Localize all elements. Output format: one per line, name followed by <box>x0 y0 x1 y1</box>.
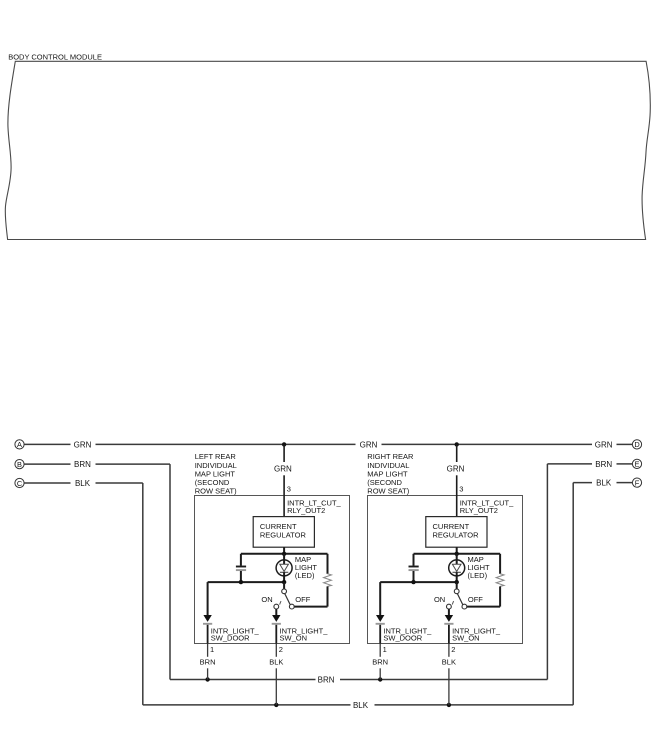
svg-text:GRN: GRN <box>595 441 613 450</box>
label INTR_LIGHT_SW_ON (right) <box>452 626 501 642</box>
connector pin E <box>632 459 641 468</box>
wire top rail (left) <box>241 553 328 555</box>
connector pin D <box>632 440 641 449</box>
label GRN (left) <box>74 441 92 450</box>
wire pin2 to box edge (left) <box>275 625 277 644</box>
wire BLK to label <box>573 482 592 484</box>
label MAP LIGHT (LED) (right) <box>468 555 491 580</box>
svg-text:OFF: OFF <box>468 595 483 604</box>
wire pin2 drop (left) <box>275 609 277 615</box>
svg-text:B: B <box>17 460 22 469</box>
junction top rail / LED (left) <box>282 552 286 556</box>
wire LED junction to switch (right) <box>456 582 458 589</box>
svg-text:A: A <box>17 440 22 449</box>
wire pin1 to BRN bus (left) <box>207 668 209 679</box>
arrow pin1 (right) <box>376 615 384 622</box>
wire pin1 lead (left) <box>207 644 209 657</box>
junction lower rail / LED (left) <box>282 580 286 584</box>
map light LED lamp (left) <box>276 554 292 582</box>
arrow bar pin2 (right) <box>444 623 453 625</box>
wire regulator to rail (left) <box>283 547 285 554</box>
junction top rail / LED (right) <box>455 552 459 556</box>
label INTR_LT_CUT_RLY_OUT2 (right) <box>460 499 514 516</box>
svg-text:OFF: OFF <box>295 595 310 604</box>
label BRN pin1 (right) <box>372 657 388 666</box>
svg-text:SW_ON: SW_ON <box>280 634 308 643</box>
switch ON/OFF (left) <box>274 589 294 609</box>
svg-text:BRN: BRN <box>74 460 91 469</box>
label MAP LIGHT (LED) (left) <box>295 555 318 580</box>
wire BRN to corner <box>96 463 171 465</box>
wire BRN from pin B <box>24 463 70 465</box>
wire BRN bus left <box>170 679 316 681</box>
svg-text:ON: ON <box>261 595 272 604</box>
wire BLK bus right <box>375 704 574 706</box>
arrow bar pin1 (left) <box>203 623 212 625</box>
svg-text:BLK: BLK <box>442 657 456 666</box>
svg-text:REGULATOR: REGULATOR <box>260 531 307 540</box>
module box: left map light <box>195 496 350 644</box>
svg-text:1: 1 <box>210 645 214 654</box>
wire pin1 lead (right) <box>379 644 381 657</box>
connector pin B <box>15 460 24 469</box>
connector pin C <box>15 478 24 487</box>
arrow pin2 (right) <box>445 615 453 622</box>
wire GRN from pin A <box>24 443 70 445</box>
svg-text:1: 1 <box>383 645 387 654</box>
connector pin A <box>15 440 24 449</box>
junction BRN bus / right pin 1 <box>378 677 382 681</box>
wire OFF contact to resistor (left) <box>294 606 327 608</box>
wire pin1 to BRN bus (right) <box>379 668 381 679</box>
svg-text:BRN: BRN <box>318 676 335 685</box>
capacitor (right) <box>409 554 419 582</box>
wire BLK to pin F <box>617 482 633 484</box>
switch ON/OFF (right) <box>447 589 467 609</box>
wire GRN across top <box>96 443 356 445</box>
svg-text:SW_DOOR: SW_DOOR <box>383 634 422 643</box>
svg-text:SW_ON: SW_ON <box>452 634 480 643</box>
wire GRN drop to right module (lower) <box>456 475 458 516</box>
svg-text:ROW SEAT): ROW SEAT) <box>195 487 237 496</box>
module box: right map light <box>368 496 523 644</box>
wire top rail (right) <box>414 553 501 555</box>
svg-text:E: E <box>635 460 640 469</box>
wire pin2 lead (right) <box>448 644 450 657</box>
wire BRN left riser <box>169 464 171 679</box>
resistor (right) <box>496 554 504 607</box>
junction BLK bus / left pin 2 <box>274 703 278 707</box>
svg-text:ROW SEAT): ROW SEAT) <box>367 487 409 496</box>
svg-text:BRN: BRN <box>200 657 216 666</box>
pin number 1 (left) <box>210 645 214 654</box>
label ON (right) <box>434 595 445 604</box>
svg-text:GRN: GRN <box>274 465 292 474</box>
label BRN (right) <box>595 460 612 469</box>
wire pin1 to box edge (left) <box>207 625 209 644</box>
wire regulator to rail (right) <box>456 547 458 554</box>
wire BRN right riser <box>546 464 548 680</box>
wire lower rail (left) <box>208 581 285 583</box>
wire BLK bus left <box>143 704 351 706</box>
svg-text:BLK: BLK <box>353 701 369 710</box>
wire pin1 drop (right) <box>379 582 381 615</box>
svg-text:BRN: BRN <box>372 657 388 666</box>
arrow pin1 (left) <box>203 615 211 622</box>
label INTR_LT_CUT_RLY_OUT2 (left) <box>287 499 341 516</box>
wire pin2 lead (left) <box>275 644 277 657</box>
wire GRN drop to left module (upper) <box>283 444 285 462</box>
label GRN on drop (right) <box>447 465 465 474</box>
svg-text:RLY_OUT2: RLY_OUT2 <box>460 506 498 515</box>
svg-text:2: 2 <box>279 645 283 654</box>
svg-text:SW_DOOR: SW_DOOR <box>211 634 250 643</box>
svg-text:F: F <box>635 478 640 487</box>
svg-text:3: 3 <box>287 485 291 494</box>
label GRN on drop (left) <box>274 465 292 474</box>
label OFF (right) <box>468 595 483 604</box>
label INTR_LIGHT_SW_DOOR (right) <box>383 626 432 642</box>
wire GRN drop to left module (lower) <box>283 475 285 516</box>
wire pin2 to box edge (right) <box>448 625 450 644</box>
svg-text:GRN: GRN <box>74 441 92 450</box>
label BRN (left) <box>74 460 91 469</box>
svg-text:RLY_OUT2: RLY_OUT2 <box>287 506 325 515</box>
junction lower rail / capacitor (right) <box>411 580 415 584</box>
svg-text:BLK: BLK <box>269 657 283 666</box>
wire BLK to corner <box>96 482 143 484</box>
wire GRN to pin D <box>617 443 633 445</box>
arrow pin2 (left) <box>272 615 280 622</box>
wire GRN drop to right module (upper) <box>456 444 458 462</box>
label BLK (bus) <box>353 701 369 710</box>
label BLK pin2 (right) <box>442 657 456 666</box>
wire lower rail (right) <box>380 581 457 583</box>
label BLK (left) <box>75 479 91 488</box>
label BODY CONTROL MODULE <box>8 53 102 62</box>
svg-text:C: C <box>17 479 23 488</box>
label CURRENT REGULATOR (left) <box>260 522 307 540</box>
pin number 3 (left) <box>287 485 291 494</box>
junction lower rail / capacitor (left) <box>239 580 243 584</box>
label GRN (right) <box>595 441 613 450</box>
label INTR_LIGHT_SW_ON (left) <box>280 626 329 642</box>
svg-text:BODY CONTROL MODULE: BODY CONTROL MODULE <box>8 53 102 62</box>
wire pin2 to BLK bus (left) <box>275 668 277 705</box>
pin number 3 (right) <box>459 485 463 494</box>
pin number 2 (right) <box>451 645 455 654</box>
svg-text:REGULATOR: REGULATOR <box>433 531 480 540</box>
svg-text:D: D <box>634 440 639 449</box>
pin number 1 (right) <box>383 645 387 654</box>
arrow bar pin1 (right) <box>376 623 385 625</box>
label ON (left) <box>261 595 272 604</box>
current regulator box (left) <box>253 517 314 548</box>
label LEFT REAR (header) <box>195 452 237 495</box>
svg-text:2: 2 <box>451 645 455 654</box>
wire pin1 drop (left) <box>207 582 209 615</box>
current regulator box (right) <box>426 517 487 548</box>
svg-text:3: 3 <box>459 485 463 494</box>
wire pin2 drop (right) <box>448 609 450 615</box>
label CURRENT REGULATOR (right) <box>433 522 480 540</box>
svg-text:GRN: GRN <box>447 465 465 474</box>
wire BLK left riser <box>142 483 144 705</box>
junction GRN / right map light <box>455 442 459 446</box>
label BRN (bus) <box>318 676 335 685</box>
pin number 2 (left) <box>279 645 283 654</box>
label RIGHT REAR (header) <box>367 452 414 495</box>
capacitor (left) <box>236 554 246 582</box>
svg-text:(LED): (LED) <box>468 571 488 580</box>
junction lower rail / LED (right) <box>455 580 459 584</box>
wire pin2 to BLK bus (right) <box>448 668 450 705</box>
wire pin1 to box edge (right) <box>379 625 381 644</box>
wire BRN to label <box>547 463 592 465</box>
label GRN (middle) <box>360 441 378 450</box>
svg-text:BRN: BRN <box>595 460 612 469</box>
label BLK pin2 (left) <box>269 657 283 666</box>
module box: BODY CONTROL MODULE (torn edges) <box>5 61 650 239</box>
junction GRN / left map light <box>282 442 286 446</box>
arrow bar pin2 (left) <box>272 623 281 625</box>
junction BLK bus / right pin 2 <box>447 703 451 707</box>
wire GRN across top right <box>382 443 593 445</box>
svg-text:BLK: BLK <box>75 479 91 488</box>
wire BLK right riser <box>572 483 574 705</box>
label INTR_LIGHT_SW_DOOR (left) <box>211 626 260 642</box>
wire LED junction to switch (left) <box>283 582 285 589</box>
map light LED lamp (right) <box>449 554 465 582</box>
svg-text:GRN: GRN <box>360 441 378 450</box>
svg-text:BLK: BLK <box>596 479 612 488</box>
svg-text:(LED): (LED) <box>295 571 315 580</box>
label BRN pin1 (left) <box>200 657 216 666</box>
svg-text:ON: ON <box>434 595 445 604</box>
wire BRN bus right <box>340 679 547 681</box>
wire BLK from pin C <box>24 482 70 484</box>
junction BRN bus / left pin 1 <box>205 677 209 681</box>
label OFF (left) <box>295 595 310 604</box>
connector pin F <box>632 478 641 487</box>
wire OFF contact to resistor (right) <box>467 606 500 608</box>
wire BRN to pin E <box>617 463 633 465</box>
resistor (left) <box>324 554 332 607</box>
label BLK (right) <box>596 479 612 488</box>
